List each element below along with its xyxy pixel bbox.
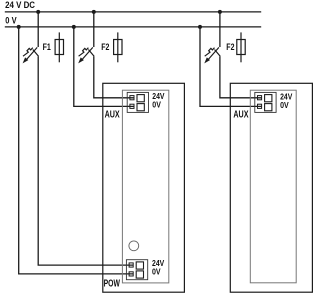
- module U2 AUX 0V screw terminal: [258, 104, 262, 108]
- wire 24V bus: [5, 11, 261, 13]
- wire branch 1: 24V bus to disconnect S1: [37, 12, 39, 47]
- junction dot on 0V bus at branch 2: [17, 25, 21, 29]
- svg-text:F2: F2: [101, 42, 109, 52]
- wire 0V bus: [5, 26, 261, 28]
- junction dot on 24V bus at branch 1: [36, 10, 40, 14]
- module U1 AUX 24V terminal opening: [137, 95, 144, 102]
- junction dot on 24V bus at branch 3: [92, 10, 96, 14]
- wire branch 2: 0V bus down and right to POW 0V terminal: [19, 27, 133, 274]
- module U1 POW terminal block container: [126, 260, 147, 280]
- svg-text:F2: F2: [226, 42, 234, 52]
- fuse F2 (module 2 aux): [237, 32, 245, 62]
- module U2 AUX 24V terminal opening: [265, 95, 272, 102]
- svg-text:0 V: 0 V: [5, 16, 16, 26]
- module U1 outer enclosure: [103, 83, 185, 292]
- fuse F2 (module 1 aux): [114, 32, 122, 62]
- junction dot on 0V bus at branch 4: [72, 25, 76, 29]
- module U1 inner housing: [122, 90, 168, 283]
- svg-text:F1: F1: [43, 42, 51, 52]
- module U1 POW 0V screw terminal: [129, 272, 133, 276]
- junction dot on 0V bus at branch 6: [198, 25, 202, 29]
- svg-text:24 V DC: 24 V DC: [5, 0, 35, 10]
- svg-text:AUX: AUX: [233, 110, 248, 121]
- module U2 inner housing: [250, 90, 296, 283]
- wire branch 4: 0V bus down and right to module1 AUX 0V terminal: [74, 27, 134, 107]
- wire branch 5: S3 down and right to module2 AUX 24V terminal: [220, 57, 262, 98]
- svg-text:0V: 0V: [152, 268, 161, 277]
- module U2 AUX 0V terminal opening: [265, 104, 272, 111]
- module U1 AUX 0V terminal opening: [137, 104, 144, 111]
- fuse F1: [55, 32, 63, 62]
- disconnect switch S2 (plug-in link with pull arrow): [78, 47, 94, 63]
- wire branch 6: 0V bus down and right to module2 AUX 0V terminal: [200, 27, 261, 107]
- module U1 AUX terminal block container: [127, 92, 148, 112]
- module U1 status LED circle: [129, 241, 139, 251]
- disconnect switch S3 (plug-in link with pull arrow): [204, 47, 220, 63]
- wire branch 3: S2 down and right to module1 AUX 24V terminal: [94, 57, 134, 98]
- wire branch 3: 24V bus to disconnect S2: [93, 12, 95, 47]
- module U2 outer enclosure: [230, 83, 312, 292]
- module U1 POW 24V terminal opening: [136, 262, 143, 269]
- disconnect switch S1 (plug-in link with pull arrow): [23, 47, 39, 63]
- wire branch 5: 24V bus to disconnect S3: [219, 12, 221, 47]
- module U2 AUX terminal block container: [255, 92, 276, 112]
- svg-text:POW: POW: [104, 278, 121, 289]
- module U2 AUX 24V screw terminal: [258, 96, 262, 100]
- module U1 POW 0V terminal opening: [136, 271, 143, 278]
- wire branch 1: S1 down and right to POW 24V terminal: [38, 57, 133, 266]
- svg-text:AUX: AUX: [105, 110, 120, 121]
- junction dot on 24V bus at branch 5: [218, 10, 222, 14]
- module U1 POW 24V screw terminal: [129, 263, 133, 267]
- module U1 AUX 24V screw terminal: [130, 96, 134, 100]
- svg-text:0V: 0V: [280, 101, 289, 110]
- module U1 AUX 0V screw terminal: [130, 104, 134, 108]
- svg-text:0V: 0V: [152, 100, 161, 109]
